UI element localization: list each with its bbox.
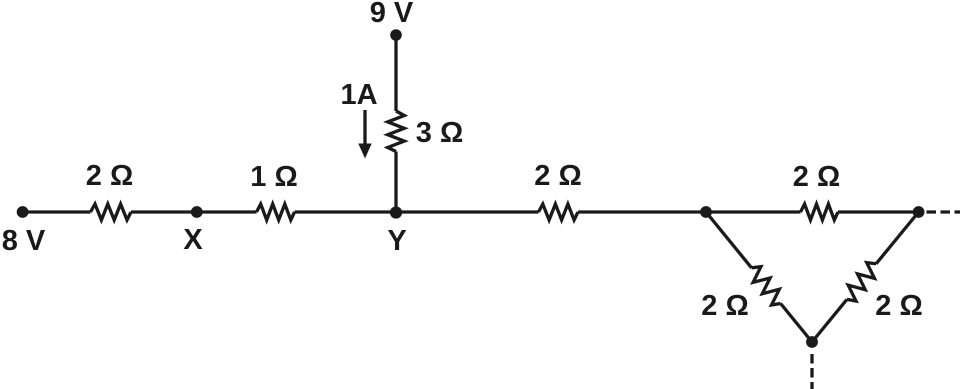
wire	[706, 212, 752, 268]
resistor R3 2ohm	[539, 204, 579, 220]
wire	[394, 35, 397, 111]
wire	[394, 152, 397, 213]
wire	[295, 210, 397, 213]
resistor R1 2ohm	[91, 204, 132, 220]
node X	[191, 206, 203, 218]
wire	[876, 212, 919, 264]
resistor R5 3ohm	[388, 111, 405, 152]
svg-text:9 V: 9 V	[370, 0, 414, 29]
node C	[913, 206, 925, 218]
current arrow 1A	[358, 110, 371, 159]
wire	[23, 210, 91, 213]
wire	[812, 299, 847, 342]
svg-text:3 Ω: 3 Ω	[416, 117, 463, 149]
wire	[578, 210, 706, 213]
svg-text:2 Ω: 2 Ω	[86, 160, 133, 192]
svg-text:8 V: 8 V	[2, 225, 46, 257]
wire	[131, 210, 197, 213]
dashed wire bottom	[810, 354, 813, 389]
svg-text:2 Ω: 2 Ω	[701, 290, 748, 322]
wire	[396, 210, 539, 213]
wire	[838, 210, 919, 213]
resistor R4 2ohm	[801, 204, 839, 220]
svg-text:1 Ω: 1 Ω	[250, 161, 297, 193]
node 8V terminal	[17, 206, 29, 218]
svg-text:2 Ω: 2 Ω	[534, 160, 581, 192]
resistor R6 2ohm left diagonal	[752, 267, 781, 305]
dashed wire right	[927, 210, 960, 213]
svg-text:X: X	[183, 224, 203, 256]
svg-text:2 Ω: 2 Ω	[875, 290, 922, 322]
wire	[706, 210, 801, 213]
node B	[700, 206, 712, 218]
svg-text:1A: 1A	[340, 79, 377, 111]
svg-text:2 Ω: 2 Ω	[793, 161, 840, 193]
node Y	[390, 206, 402, 218]
wire	[197, 210, 257, 213]
wire	[781, 304, 812, 343]
resistor R7 2ohm right diagonal	[847, 263, 876, 301]
svg-text:Y: Y	[387, 225, 406, 257]
resistor R2 1ohm	[257, 204, 295, 220]
node 9V terminal	[390, 29, 402, 41]
node D	[806, 336, 818, 348]
